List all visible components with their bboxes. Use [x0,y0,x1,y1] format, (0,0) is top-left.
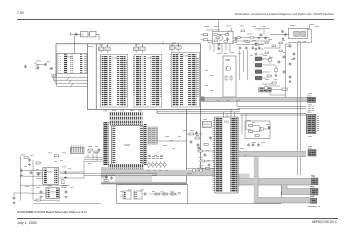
wire bus drop [171,44,173,47]
label tiny [240,25,244,28]
resistor R3x [272,45,276,47]
wire data pair A [157,113,306,115]
resistor R165 [61,180,64,184]
connector stub P4 [311,188,318,195]
label tiny [231,51,234,54]
capacitor C162 [38,172,40,174]
footer sheet title [17,210,87,214]
wire data pair vertical [156,109,158,113]
IC U104 pin labels col 4 [192,54,196,107]
wire left branch vertical [55,44,57,77]
IC U103 pin labels col 2 [143,56,146,106]
wire drops right of J401 [241,115,243,134]
wire J401 left nets [202,150,215,152]
resistor R402 [195,137,199,139]
wire osc jog up [308,25,314,29]
ground [65,176,67,177]
label tiny [217,52,221,55]
connector J102 [70,147,84,153]
label tiny [172,147,175,150]
gray bus wedge [115,174,152,183]
resistor R2x [246,41,250,43]
IC U103 pin labels col 3 [151,56,156,106]
label tiny [172,42,176,45]
label tiny [138,110,142,113]
gray bus ribbon lower [101,182,187,185]
wire osc internals [217,33,225,35]
label tiny [68,167,71,170]
resistor R413 [206,167,210,169]
label tiny [88,162,91,165]
right row wires [233,37,270,39]
label tiny [42,169,45,172]
wire to J401 left [187,168,215,170]
IC U101 body [112,126,144,166]
wire riser short [231,28,233,32]
label tiny [226,25,231,28]
label tiny [190,129,194,132]
connector J401 left pin labels [216,118,223,192]
label tiny [62,182,65,185]
wire opamp inner [253,125,260,127]
resistor R2x [224,41,228,43]
resistor R401 [189,133,193,135]
capacitor C170 [144,192,146,194]
label tiny [252,25,256,28]
pin stubs below bus [209,44,211,51]
label tiny [54,160,57,163]
ground [65,196,67,197]
label tiny [252,121,255,124]
IC U101 bottom gray wire band [101,169,144,172]
test point table TP100 [202,121,211,127]
ground [282,38,284,39]
capacitor C411 [208,163,210,165]
label tiny [60,159,63,162]
capacitor C402 [197,143,199,145]
wire address bus A2 [55,74,88,84]
label tiny [291,58,294,61]
wire riser to header [218,21,220,31]
label tiny [290,24,295,27]
resistor R203 [214,40,217,42]
bus slash marks [67,78,70,81]
IC U201 pin labels right [80,54,83,73]
label tiny [244,154,247,157]
capacitor C215 [260,33,262,35]
IC U104 outside-right pin numbers [197,57,199,96]
wire right field net2 [262,64,276,66]
label tiny [24,165,27,168]
ground [13,202,15,203]
small doc number on sheet [308,206,316,207]
transistor Q101 [147,163,150,166]
capacitor C202 [227,37,229,39]
resistor R160 [55,155,59,157]
label tiny [30,154,33,157]
label tiny [48,185,52,188]
label tiny [120,110,124,113]
transistor Q212 [264,86,268,90]
transistor row labels [146,156,163,160]
wire address bus A0 [52,74,88,78]
transistor Q210 [268,58,272,62]
label tiny [250,54,253,57]
capacitor C401 [190,140,192,142]
wire long vertical net [186,109,188,188]
connector J102 pin 2 [73,148,75,153]
IC U101 right gray label block [147,127,158,145]
label tiny [152,190,155,193]
resistor R314 [255,135,259,137]
capacitor C201 [43,64,47,66]
wire cluster loop [245,121,270,139]
label tiny [103,110,107,113]
resistor R150 [88,149,92,151]
capacitor C214 [235,37,237,39]
IC U201 pin numbers left [59,55,61,73]
wire audio net2 [13,193,15,196]
resistor R162 [36,162,40,164]
resistor R208 [250,37,253,39]
resistor R210 [267,75,271,77]
wire data pair B [240,114,306,116]
wire left rail [19,156,21,201]
label tiny [95,145,98,148]
capacitor C243 [289,44,291,46]
wire address bus A3 [57,74,88,86]
capacitor C244 [293,52,295,54]
resistor network RN2 [255,63,261,67]
wire IC frame right [200,44,202,174]
resistor R171 [163,193,167,195]
connector J401 outer pin ticks left [213,119,215,192]
wire U150 left stack [36,171,43,173]
label tiny [165,169,168,172]
label tiny [88,151,91,154]
capacitor C202 [49,68,53,70]
svg-text:U151: U151 [51,192,57,194]
label tiny [298,40,301,43]
label tiny [165,135,169,138]
header rule [17,18,334,21]
IC U104 outside-left pin numbers [170,54,172,95]
label tiny [199,164,203,167]
svg-text:U150: U150 [48,172,54,174]
capacitor C232 [255,53,257,54]
capacitor C410 [204,153,206,155]
wire audio nets [23,170,46,172]
capacitor C221 [245,46,247,47]
wire bus to U201 [74,44,76,54]
connector J301 labels right [317,116,320,132]
ground [29,163,31,164]
IC U201 pin numbers right [84,55,87,73]
transistor Q104 [159,163,162,166]
IC U160 [123,191,131,199]
resistor R206 [204,34,208,36]
transistor Q310 [260,127,263,130]
label tiny [160,191,164,194]
transistor Q301 [227,67,231,71]
label tiny [48,152,52,155]
capacitor C222 [252,46,254,47]
IC U104 pin labels col 2 [180,54,183,107]
capacitor C223 [258,46,260,47]
wire bus drop [107,44,109,47]
footer rule [17,218,338,219]
resistor R310 [249,125,253,127]
label tiny [120,190,123,193]
connector J301 pin block [306,114,316,133]
resistor R201 [214,34,217,36]
gray bus path 3 vertical [254,157,258,199]
op-amp U302 [260,127,264,132]
label tiny [140,189,144,192]
label tiny [130,109,134,112]
resistor network RN3 [255,70,261,74]
RC network C10 [99,47,104,51]
label tiny [178,135,181,138]
ground [40,196,42,197]
ground [218,47,220,48]
transistor Q201 [218,36,223,41]
label tiny [70,186,73,189]
label tiny [224,52,227,55]
ground [289,80,291,81]
label tiny [147,169,150,172]
wire clock 3 [299,43,301,175]
label tiny [178,191,181,194]
ground [293,57,295,58]
resistor R172 [171,193,175,195]
resistor R202 [226,34,229,36]
transistor Q105 [163,163,166,166]
wire bus drop [135,44,137,47]
capacitor C161 [30,171,32,173]
label tiny [99,43,103,46]
wire cluster riser net [228,31,233,34]
capacitor C216 [265,36,267,38]
label tiny [62,152,66,155]
resistor R2x [233,41,237,43]
label tiny [36,168,39,171]
wire top bus [56,43,201,45]
label tiny [170,191,174,194]
label tiny [163,144,167,147]
capacitor C313 [252,143,254,145]
label tiny [170,139,173,142]
label tiny [262,25,266,28]
label tiny [88,145,92,148]
label tiny [88,45,93,48]
wire bus drop [142,44,144,47]
IC U103 pin labels col 4 [155,56,159,106]
label tiny [263,54,267,57]
IC U151 body [46,188,60,199]
connector J401 body [215,117,238,193]
resistor R410 [198,150,202,152]
capacitor C414 [198,146,200,148]
resistor R2x [241,30,245,32]
wire IC frame left [95,44,97,110]
wire bundle to J301 [237,105,306,107]
capacitor C233 [255,58,257,59]
connector J102 pin 5 [79,148,81,153]
label tiny [266,123,269,126]
capacitor C312 [248,143,250,145]
capacitor C413 [210,136,212,138]
IC U101 right pin labels [144,124,147,165]
node A wire [36,64,43,66]
junction tick on bus [162,41,164,44]
label tiny [62,166,66,169]
IC U161 [134,191,142,199]
crystal element 1 [294,32,299,37]
connector J102 pin 6 [82,148,84,153]
IC U102 pin labels col 3 [117,56,122,106]
resistor R411 [200,160,204,162]
wire feed to band A [60,172,157,174]
label tiny [311,174,315,177]
capacitor C110 [282,30,284,32]
capacitor C100 [75,33,77,37]
IC U101 inner right pins [140,127,143,165]
svg-text:U201: U201 [68,57,74,59]
gray bus path 3 horizontal [254,198,311,203]
resistor R2x [208,41,212,43]
IC U102 pin labels col 1 [102,56,108,106]
svg-text:C231: C231 [259,49,265,51]
gray bus path 2 [281,185,287,192]
resistor R151 [94,151,98,153]
transistor Q211 [274,68,278,72]
svg-text:U101: U101 [124,143,131,147]
wire left feeds [201,34,204,36]
oscillator Y100 module box [288,28,307,38]
label tiny [214,25,218,28]
capacitor C111 [285,33,287,35]
test point TP1 [36,65,40,67]
label tiny [46,61,50,64]
IC U102 outside-left pin numbers [99,56,101,95]
IC U201 pin labels mid [70,55,72,73]
wire R401 net [187,133,190,135]
wire staircase outline [188,202,281,204]
wire bus drop [178,44,180,47]
resistor R3x [279,50,283,52]
resistor R3x [265,52,269,54]
filter FL100 [81,32,89,37]
label tiny [226,99,230,102]
resistor R311 [249,131,253,133]
label tiny [283,51,286,54]
RC network C11 [134,47,139,51]
resistor R3x [265,42,269,44]
label tiny [205,69,208,72]
IC U103 body [134,55,162,108]
label tiny [282,39,285,42]
resistor R204 [237,37,240,39]
audio filter group box [117,185,188,204]
header title [235,12,334,16]
IC U101 bottom pin labels [109,164,144,168]
label tiny [203,118,207,121]
resistor R414 [204,144,208,146]
label tiny [25,185,29,188]
capacitor C130 [25,65,27,67]
resistor R205 [244,40,247,42]
label tiny [183,129,186,132]
gray bus band right [239,178,312,185]
filter FL300 [259,88,272,92]
capacitor C165 [65,190,67,192]
capacitor C181 [111,176,113,178]
resistor R163 [62,186,66,188]
label tiny [197,146,201,149]
capacitor C314 [258,143,260,145]
svg-text:U301: U301 [225,60,231,62]
wire IC frame bottom [88,108,240,110]
IC U101 top pin-label band [109,112,143,125]
label tiny [268,38,272,41]
IC U102 pin labels col 2 [109,56,112,106]
capacitor C213 [218,42,220,44]
resistor R302 [230,76,232,80]
connector stub P3 [312,178,319,185]
wire bus into J401 [157,111,240,113]
label tiny [210,74,213,77]
IC U101 left pin labels [103,122,109,165]
resistor network RN1 [255,57,261,61]
footer date [17,221,37,225]
svg-text:J301: J301 [307,112,313,114]
wire clock 1 [285,44,287,97]
capacitor C180 [106,175,108,177]
label tiny [196,134,199,137]
resistor R180 [104,180,108,182]
resistor R220 [282,88,287,90]
IC U201 pin labels left [64,54,67,73]
IC U301 body [223,56,236,97]
resistor R211 [272,82,276,84]
capacitor C150 [98,148,100,150]
capacitor C246 [278,60,280,62]
label tiny [265,78,269,81]
wire clock 2 [297,43,299,175]
resistor R164 [36,199,40,201]
label tiny [240,147,244,150]
label tiny [216,99,220,102]
resistor R161 [24,157,28,159]
label tiny [205,84,208,87]
connector stub P1 [308,97,316,102]
connector stub P5 [311,198,317,203]
label tiny [95,151,98,154]
label tiny [36,186,39,189]
label tiny [207,159,210,162]
resistor R301 [225,76,227,80]
capacitor C160 [29,158,31,160]
resistor R170 [155,193,159,195]
label tiny [128,189,132,192]
label tiny [236,99,240,102]
label tiny [206,149,209,152]
RC network C12 [170,46,175,50]
crystal element 2 [301,32,306,37]
IC U150 body [43,168,59,185]
label tiny [154,154,157,157]
